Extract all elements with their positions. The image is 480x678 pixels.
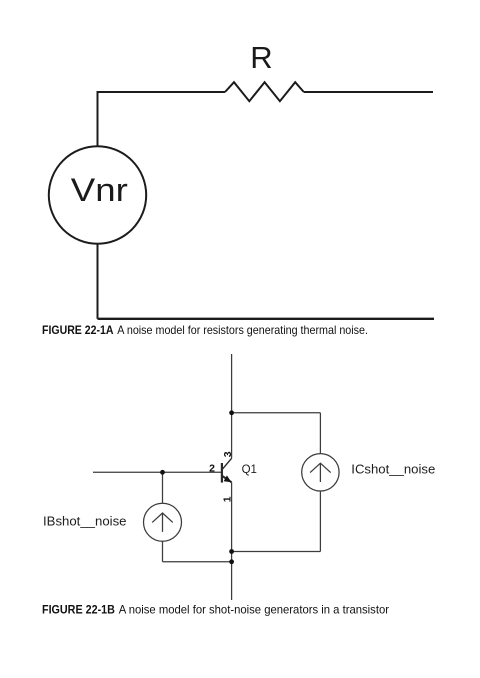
wire IC bottom drop xyxy=(319,491,321,552)
transistor Q1 emitter diagonal xyxy=(222,476,231,482)
svg-text:FIGURE 22-1A: FIGURE 22-1A xyxy=(42,323,114,337)
wire top horizontal right xyxy=(304,91,433,93)
wire bottom horizontal (IB to emitter) xyxy=(163,561,232,563)
svg-text:IBshot__noise: IBshot__noise xyxy=(43,513,127,528)
svg-text:ICshot__noise: ICshot__noise xyxy=(351,462,435,477)
svg-text:R: R xyxy=(250,40,272,75)
wire top horizontal (collector to ICshot) xyxy=(232,412,321,414)
transistor Q1 emitter arrowhead xyxy=(224,475,232,482)
svg-text:Q1: Q1 xyxy=(242,464,257,476)
resistor R xyxy=(225,82,304,101)
wire bottom horizontal xyxy=(98,318,435,320)
transistor Q1 xyxy=(222,458,232,482)
svg-text:3: 3 xyxy=(222,451,234,457)
svg-text:A noise model for shot-noise g: A noise model for shot-noise generators … xyxy=(119,602,389,616)
transistor Q1 base bar xyxy=(221,463,223,483)
voltage source Vnr circle xyxy=(49,146,146,243)
svg-text:Vnr: Vnr xyxy=(71,172,128,208)
current source IBshot__noise arrow xyxy=(152,513,173,532)
wire IC top drop xyxy=(319,413,321,454)
wire emitter vertical xyxy=(231,482,233,600)
current source IBshot__noise circle xyxy=(144,503,182,541)
transistor Q1 collector diagonal xyxy=(222,458,231,469)
svg-text:A noise model for resistors ge: A noise model for resistors generating t… xyxy=(117,323,368,337)
node junction emitter upper xyxy=(229,549,234,554)
svg-text:2: 2 xyxy=(209,463,215,475)
node junction collector xyxy=(229,410,234,415)
current source ICshot__noise arrow xyxy=(310,463,331,482)
wire bottom horizontal (IC to emitter) xyxy=(232,551,321,553)
current source ICshot__noise circle xyxy=(302,454,339,491)
wire IB top drop xyxy=(162,472,164,503)
svg-text:1: 1 xyxy=(222,496,234,502)
wire left vertical top (Vnr top terminal) xyxy=(98,92,226,147)
wire IB bottom drop xyxy=(162,541,164,562)
node junction base xyxy=(160,470,165,475)
svg-text:FIGURE 22-1B: FIGURE 22-1B xyxy=(42,602,115,616)
wire left vertical bottom (Vnr bottom terminal) xyxy=(97,244,99,319)
node junction emitter lower xyxy=(229,559,234,564)
wire base horizontal xyxy=(93,471,221,473)
wire collector vertical stub xyxy=(231,354,233,458)
